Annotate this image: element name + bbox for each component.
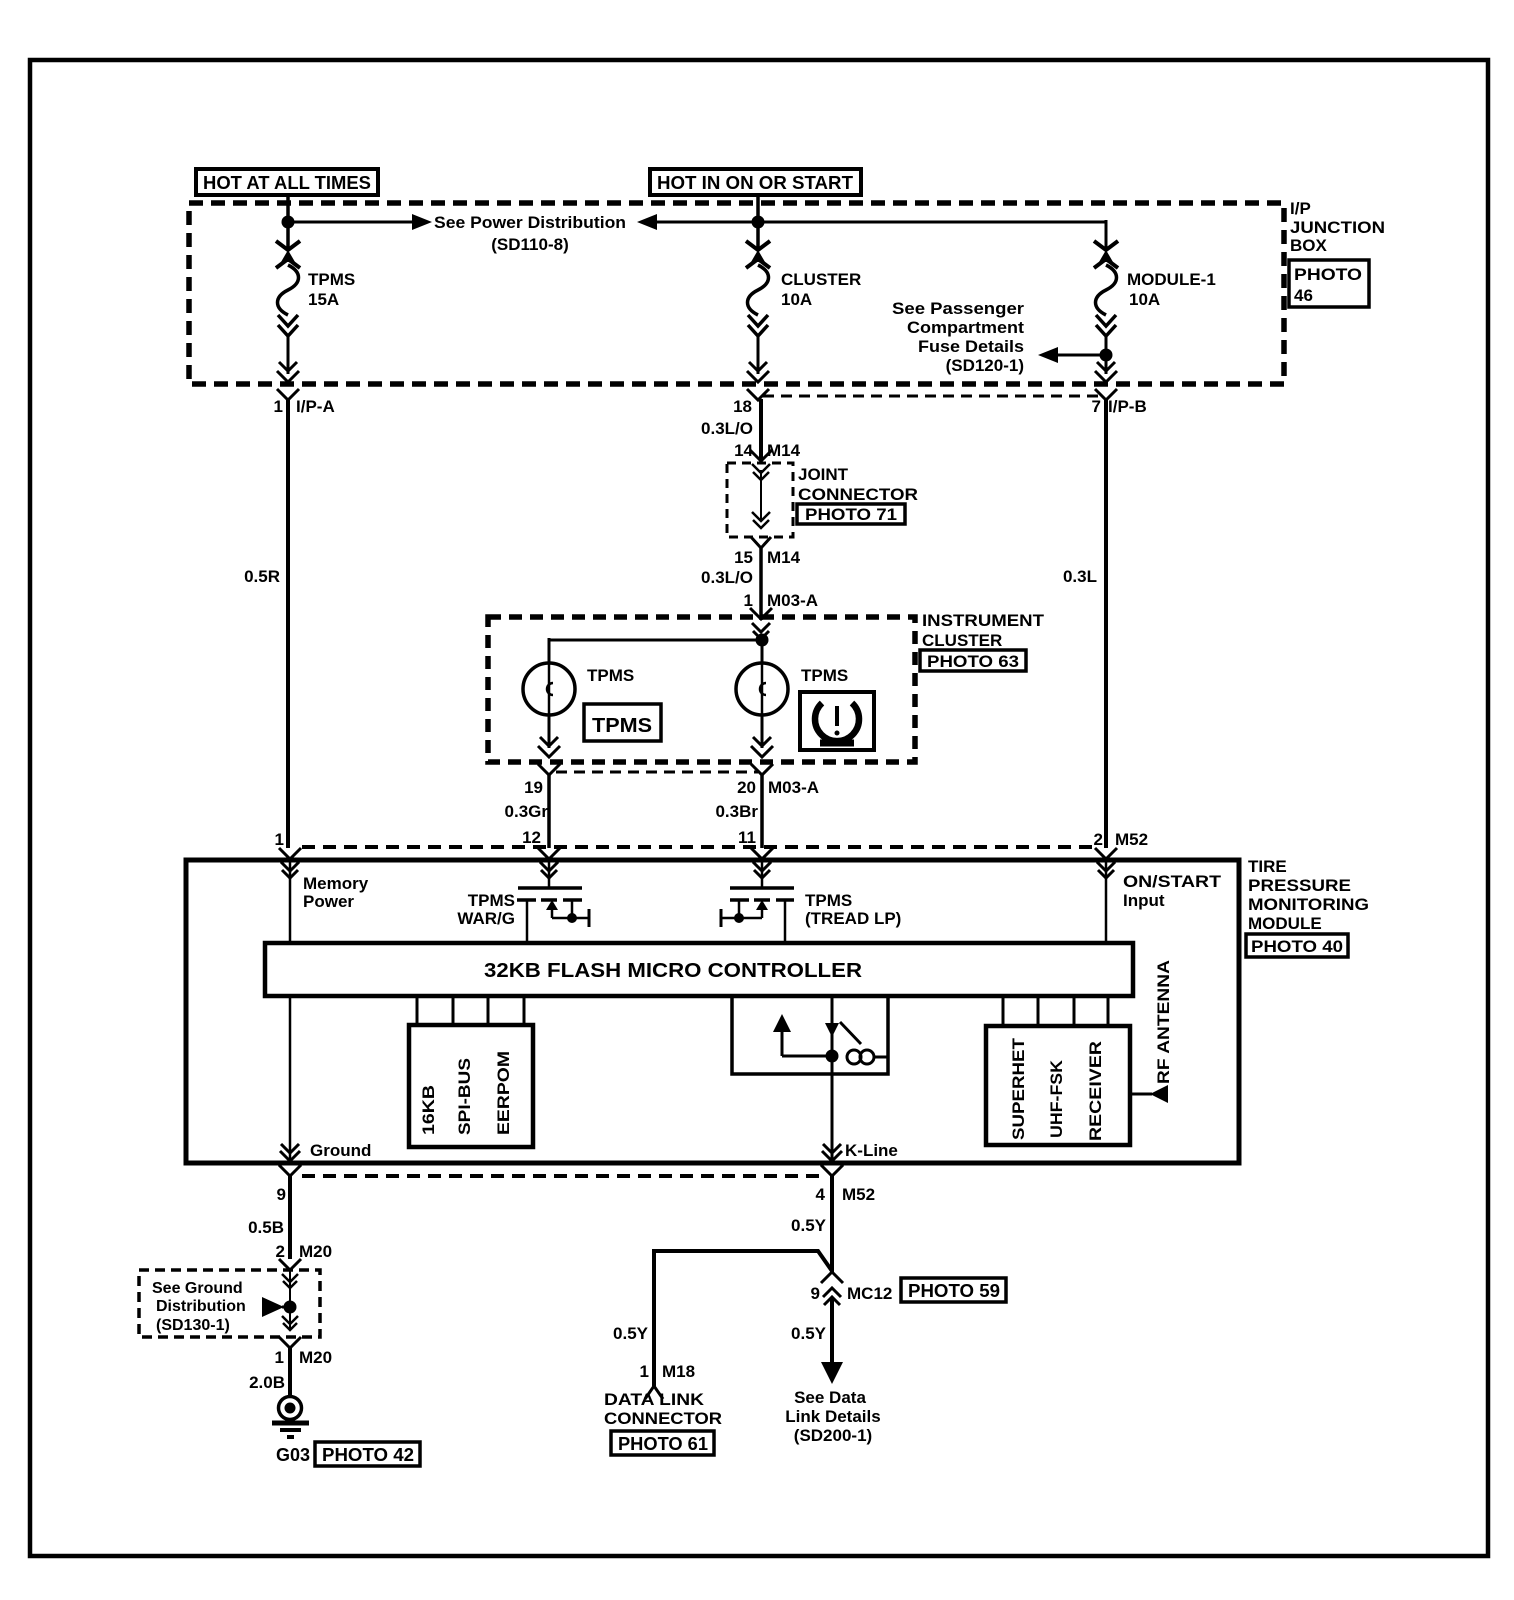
svg-text:1: 1 bbox=[275, 830, 284, 849]
svg-text:See Data: See Data bbox=[794, 1388, 866, 1407]
label 0.5Y lower left bbox=[613, 1324, 649, 1343]
svg-text:Link Details: Link Details bbox=[785, 1407, 880, 1426]
svg-text:15A: 15A bbox=[308, 290, 339, 309]
label pin 2 M20 bbox=[276, 1242, 333, 1261]
fuse TPMS 15A bbox=[276, 241, 300, 374]
svg-text:10A: 10A bbox=[1129, 290, 1160, 309]
svg-text:M03-A: M03-A bbox=[768, 778, 819, 797]
wire 0.5Y to data link details bbox=[821, 1297, 843, 1384]
svg-text:WAR/G: WAR/G bbox=[457, 909, 515, 928]
svg-text:20: 20 bbox=[737, 778, 756, 797]
svg-text:I/P: I/P bbox=[1290, 199, 1311, 218]
label pin 18 bbox=[733, 397, 752, 416]
svg-text:0.5Y: 0.5Y bbox=[791, 1216, 827, 1235]
wire memory power into module bbox=[281, 860, 299, 943]
wire pin 12 into module bbox=[540, 860, 558, 888]
label pin 7 I/P-B bbox=[1092, 397, 1147, 416]
svg-text:See Ground: See Ground bbox=[152, 1280, 243, 1297]
label pin 9 bbox=[277, 1185, 286, 1204]
node K-line junction dot bbox=[826, 1050, 839, 1063]
svg-text:0.5B: 0.5B bbox=[248, 1218, 284, 1237]
svg-text:See Power Distribution: See Power Distribution bbox=[434, 213, 626, 232]
svg-text:I/P-A: I/P-A bbox=[296, 397, 335, 416]
node ground joint dot bbox=[284, 1301, 297, 1314]
receiver box SUPERHET UHF-FSK RECEIVER bbox=[986, 1026, 1130, 1145]
label Memory Power bbox=[303, 874, 369, 911]
connector arrow pin 1 I/P-A bbox=[277, 362, 299, 400]
connector chevron pin 12 module bbox=[538, 848, 560, 859]
wire arrow See Passenger Fuse Details (left) bbox=[1038, 347, 1106, 363]
svg-text:CLUSTER: CLUSTER bbox=[922, 631, 1002, 650]
svg-text:CONNECTOR: CONNECTOR bbox=[798, 485, 918, 504]
label K-Line bbox=[845, 1141, 898, 1160]
svg-text:HOT IN ON OR START: HOT IN ON OR START bbox=[657, 173, 853, 193]
wire on/start 0.3L (right main) bbox=[1104, 399, 1108, 848]
svg-text:CONNECTOR: CONNECTOR bbox=[604, 1409, 722, 1428]
label pin 1 M20 bbox=[275, 1348, 333, 1367]
svg-text:Distribution: Distribution bbox=[156, 1298, 246, 1315]
svg-text:TPMS: TPMS bbox=[468, 891, 515, 910]
connector pin 14 chevron bbox=[750, 450, 772, 480]
fuse CLUSTER 10A bbox=[746, 241, 770, 374]
svg-text:See Passenger: See Passenger bbox=[892, 299, 1024, 318]
label See Ground Distribution (SD130-1) bbox=[152, 1280, 246, 1334]
svg-text:TPMS: TPMS bbox=[592, 715, 652, 737]
label MODULE-1 10A bbox=[1127, 270, 1216, 309]
label 0.5Y upper bbox=[791, 1216, 827, 1235]
label See Data Link Details (SD200-1) bbox=[785, 1388, 880, 1445]
svg-text:18: 18 bbox=[733, 397, 752, 416]
svg-text:SUPERHET: SUPERHET bbox=[1009, 1037, 1028, 1140]
wire 0.5Y K-line drop bbox=[830, 1176, 834, 1272]
svg-text:TIRE: TIRE bbox=[1248, 857, 1287, 876]
wire arrow See Power Distribution (right) bbox=[288, 214, 432, 230]
svg-text:1: 1 bbox=[744, 591, 753, 610]
arrow See Ground Distribution bbox=[262, 1297, 292, 1317]
svg-text:MODULE-1: MODULE-1 bbox=[1127, 270, 1216, 289]
svg-text:PHOTO 40: PHOTO 40 bbox=[1251, 937, 1343, 956]
svg-text:12: 12 bbox=[522, 828, 541, 847]
label 0.5Y lower right bbox=[791, 1324, 827, 1343]
svg-text:19: 19 bbox=[524, 778, 543, 797]
label PHOTO 46 bbox=[1289, 260, 1369, 307]
svg-text:1: 1 bbox=[640, 1362, 649, 1381]
label pin 1 I/P-A bbox=[274, 397, 335, 416]
svg-text:M20: M20 bbox=[299, 1242, 332, 1261]
label HOT AT ALL TIMES bbox=[196, 169, 378, 195]
label TPMS 15A bbox=[308, 270, 355, 309]
svg-text:0.5Y: 0.5Y bbox=[791, 1324, 827, 1343]
connector chevron pin 2 M20 bbox=[279, 1259, 301, 1270]
svg-text:Power: Power bbox=[303, 892, 354, 911]
transistor TPMS WAR/G driver bbox=[517, 888, 589, 943]
wire cluster 0.3L/O upper bbox=[759, 399, 763, 460]
lamp TPMS (right bulb) bbox=[736, 663, 788, 715]
svg-text:RF ANTENNA: RF ANTENNA bbox=[1154, 960, 1173, 1084]
connector chevron pin 1 M20 bbox=[279, 1337, 301, 1348]
wire right bulb to pin 20 bbox=[751, 715, 773, 775]
svg-text:10A: 10A bbox=[781, 290, 812, 309]
svg-text:JOINT: JOINT bbox=[798, 465, 849, 484]
svg-text:(SD200-1): (SD200-1) bbox=[794, 1426, 872, 1445]
svg-text:16KB: 16KB bbox=[419, 1085, 438, 1135]
svg-text:PHOTO 42: PHOTO 42 bbox=[322, 1445, 414, 1465]
label TIRE PRESSURE MONITORING MODULE bbox=[1248, 857, 1369, 933]
svg-text:0.3L/O: 0.3L/O bbox=[701, 568, 753, 587]
svg-text:EERPOM: EERPOM bbox=[494, 1051, 513, 1135]
wire pin 11 into module bbox=[753, 860, 771, 888]
svg-text:ON/START: ON/START bbox=[1123, 872, 1222, 891]
wire connector link dashed 9-4 bbox=[302, 1174, 826, 1178]
wire on/start into module bbox=[1097, 860, 1115, 943]
svg-text:15: 15 bbox=[734, 548, 753, 567]
connector MC12 chevrons bbox=[821, 1272, 843, 1305]
label PHOTO 63 bbox=[920, 650, 1026, 671]
label 2.0B bbox=[249, 1373, 285, 1392]
wire memory power 0.5R (left main) bbox=[286, 399, 290, 848]
label pin 20 M03-A 0.3Br 11 bbox=[715, 778, 819, 847]
wire connector link dashed M52 row bbox=[302, 845, 1098, 849]
node junction dot module-1 bbox=[1100, 349, 1113, 362]
connector arrow pin 18 bbox=[747, 362, 769, 400]
wire cluster lamp bus bbox=[549, 638, 762, 664]
joint connector (dashed box) bbox=[727, 463, 793, 537]
wire branch to data link connector bbox=[654, 1251, 832, 1386]
svg-text:PHOTO: PHOTO bbox=[1294, 265, 1362, 284]
svg-text:G03: G03 bbox=[276, 1445, 310, 1465]
svg-text:PRESSURE: PRESSURE bbox=[1248, 876, 1351, 895]
label PHOTO 59 bbox=[901, 1278, 1006, 1302]
svg-text:TPMS: TPMS bbox=[801, 666, 848, 685]
label pin 15 M14 bbox=[734, 548, 801, 567]
svg-text:(SD130-1): (SD130-1) bbox=[156, 1317, 230, 1334]
svg-text:JUNCTION: JUNCTION bbox=[1290, 218, 1385, 237]
label pin 1 M18 bbox=[640, 1362, 696, 1381]
label HOT IN ON OR START bbox=[650, 169, 861, 195]
connector chevron pin 1 module bbox=[279, 848, 301, 859]
connector chevron pin 1 M18 bbox=[645, 1386, 663, 1399]
svg-text:9: 9 bbox=[811, 1284, 820, 1303]
wire K-line vertical bbox=[825, 996, 839, 1161]
wire cluster 0.3L/O lower bbox=[759, 548, 763, 620]
label pin 2 M52 bbox=[1094, 830, 1149, 849]
wire 0.3Br to module bbox=[760, 775, 764, 848]
connector pin 15 chevron bbox=[751, 537, 771, 548]
svg-text:46: 46 bbox=[1294, 286, 1313, 305]
label pin 1 M03-A bbox=[744, 591, 818, 610]
svg-text:PHOTO 63: PHOTO 63 bbox=[927, 652, 1019, 671]
wire K-line exit arrow bbox=[822, 1144, 842, 1161]
connector chevron pin 11 module bbox=[751, 848, 773, 859]
label TPMS WAR/G bbox=[457, 891, 515, 928]
connector arrow into instrument cluster bbox=[750, 608, 772, 639]
svg-text:TPMS: TPMS bbox=[308, 270, 355, 289]
label PHOTO 71 bbox=[797, 504, 905, 524]
wire stubs to receiver box bbox=[1003, 996, 1108, 1026]
svg-text:32KB FLASH MICRO CONTROLLER: 32KB FLASH MICRO CONTROLLER bbox=[484, 960, 863, 982]
wire ground exit bbox=[280, 996, 300, 1161]
wire cluster feed from HOT IN ON OR START bbox=[756, 195, 760, 248]
svg-text:RECEIVER: RECEIVER bbox=[1086, 1041, 1105, 1141]
svg-text:INSTRUMENT: INSTRUMENT bbox=[922, 611, 1045, 630]
svg-text:2.0B: 2.0B bbox=[249, 1373, 285, 1392]
wire connector link dashed 19-20 bbox=[556, 771, 758, 774]
wire left bulb to pin 19 bbox=[538, 715, 560, 775]
svg-text:9: 9 bbox=[277, 1185, 286, 1204]
label INSTRUMENT CLUSTER bbox=[922, 611, 1045, 650]
node junction dot TPMS feed bbox=[282, 216, 295, 229]
svg-text:PHOTO 61: PHOTO 61 bbox=[618, 1434, 708, 1454]
svg-text:7: 7 bbox=[1092, 397, 1101, 416]
label TPMS left lamp bbox=[587, 666, 634, 685]
wire MODULE-1 drop bbox=[1105, 220, 1108, 248]
lamp TPMS (left bulb) bbox=[523, 663, 575, 715]
svg-text:(TREAD LP): (TREAD LP) bbox=[805, 909, 901, 928]
svg-text:PHOTO 59: PHOTO 59 bbox=[908, 1281, 1000, 1301]
svg-text:0.3Br: 0.3Br bbox=[715, 802, 758, 821]
ground G03 symbol bbox=[272, 1397, 309, 1438]
svg-text:1: 1 bbox=[274, 397, 283, 416]
label pin 9 MC12 bbox=[811, 1284, 893, 1303]
svg-text:M20: M20 bbox=[299, 1348, 332, 1367]
wire inside joint connector bbox=[752, 470, 770, 528]
svg-text:HOT AT ALL TIMES: HOT AT ALL TIMES bbox=[203, 173, 371, 193]
label TPMS gauge box bbox=[584, 704, 661, 741]
label Ground bbox=[310, 1141, 371, 1160]
icon TPMS warning lamp bbox=[800, 692, 874, 750]
svg-text:1: 1 bbox=[275, 1348, 284, 1367]
wire stubs to EEPROM box bbox=[417, 996, 524, 1025]
connector arrow pin 7 I/P-B bbox=[1095, 362, 1117, 400]
label G03 bbox=[276, 1445, 310, 1465]
transistor TPMS TREAD LP driver bbox=[721, 888, 794, 943]
svg-text:I/P-B: I/P-B bbox=[1108, 397, 1147, 416]
svg-text:CLUSTER: CLUSTER bbox=[781, 270, 861, 289]
label PHOTO 61 bbox=[611, 1431, 714, 1455]
svg-text:UHF-FSK: UHF-FSK bbox=[1047, 1059, 1066, 1138]
svg-text:M52: M52 bbox=[1115, 830, 1148, 849]
wire connector link dashed 18-7 bbox=[763, 395, 1104, 398]
label JOINT CONNECTOR bbox=[798, 465, 918, 504]
node junction dot cluster feed bbox=[752, 216, 765, 229]
svg-text:MODULE: MODULE bbox=[1248, 914, 1322, 933]
svg-text:Fuse Details: Fuse Details bbox=[918, 337, 1024, 356]
joint connector ground (dashed box) bbox=[139, 1270, 320, 1337]
label 0.5B bbox=[248, 1218, 284, 1237]
wire 0.5B ground drop bbox=[288, 1176, 292, 1259]
svg-text:Ground: Ground bbox=[310, 1141, 371, 1160]
label PHOTO 40 bbox=[1246, 934, 1348, 957]
svg-text:M03-A: M03-A bbox=[767, 591, 818, 610]
svg-text:4: 4 bbox=[816, 1185, 826, 1204]
wire inside ground joint connector bbox=[282, 1270, 298, 1330]
svg-text:0.5R: 0.5R bbox=[244, 567, 280, 586]
svg-text:K-Line: K-Line bbox=[845, 1141, 898, 1160]
wire 0.3Gr to module bbox=[547, 775, 551, 848]
fuse MODULE-1 10A bbox=[1094, 241, 1118, 374]
svg-text:TPMS: TPMS bbox=[805, 891, 852, 910]
label TPMS right lamp bbox=[801, 666, 848, 685]
svg-text:0.3L/O: 0.3L/O bbox=[701, 419, 753, 438]
instrument cluster (dashed box) bbox=[488, 617, 915, 762]
svg-text:Compartment: Compartment bbox=[907, 318, 1024, 337]
label CLUSTER 10A bbox=[781, 270, 861, 309]
svg-text:PHOTO 71: PHOTO 71 bbox=[805, 505, 897, 524]
wire 2.0B to ground bbox=[288, 1348, 292, 1397]
svg-text:TPMS: TPMS bbox=[587, 666, 634, 685]
K-line driver box bbox=[732, 996, 888, 1074]
label See Power Distribution (SD110-8) bbox=[434, 213, 626, 254]
RF antenna bbox=[1130, 960, 1173, 1103]
micro controller box bbox=[265, 943, 1133, 996]
svg-text:DATA LINK: DATA LINK bbox=[604, 1390, 705, 1409]
label DATA LINK CONNECTOR bbox=[604, 1390, 722, 1428]
svg-text:0.3Gr: 0.3Gr bbox=[505, 802, 549, 821]
svg-text:Memory: Memory bbox=[303, 874, 369, 893]
label 0.3L/O lower bbox=[701, 568, 753, 587]
I/P junction box (dashed) bbox=[189, 203, 1284, 384]
svg-text:M52: M52 bbox=[842, 1185, 875, 1204]
svg-text:2: 2 bbox=[1094, 830, 1103, 849]
svg-text:(SD120-1): (SD120-1) bbox=[946, 356, 1024, 375]
node junction dot cluster lamp bus bbox=[756, 634, 769, 647]
label ON/START Input bbox=[1123, 872, 1222, 910]
label TPMS (TREAD LP) bbox=[805, 891, 901, 928]
connector chevron pin 2 module bbox=[1095, 848, 1117, 859]
svg-text:(SD110-8): (SD110-8) bbox=[491, 235, 568, 254]
label pin 4 M52 bbox=[816, 1185, 876, 1204]
connector chevron pin 9 module bottom bbox=[279, 1165, 301, 1176]
label 0.3L bbox=[1063, 567, 1097, 586]
wire bus to See Power Distribution (left arrow) and MODULE-1 branch bbox=[637, 214, 1106, 230]
label PHOTO 42 bbox=[315, 1442, 420, 1466]
K-line driver internals bbox=[773, 1014, 888, 1064]
wire TPMS feed from HOT AT ALL TIMES bbox=[286, 195, 290, 248]
svg-text:BOX: BOX bbox=[1290, 236, 1328, 255]
label 0.3L/O upper bbox=[701, 419, 753, 438]
svg-text:Input: Input bbox=[1123, 891, 1165, 910]
svg-text:0.5Y: 0.5Y bbox=[613, 1324, 649, 1343]
svg-text:MC12: MC12 bbox=[847, 1284, 892, 1303]
label See Passenger Compartment Fuse Details (SD120-1) bbox=[892, 299, 1024, 375]
svg-text:0.3L: 0.3L bbox=[1063, 567, 1097, 586]
svg-text:M18: M18 bbox=[662, 1362, 695, 1381]
svg-text:SPI-BUS: SPI-BUS bbox=[455, 1058, 474, 1135]
label I/P JUNCTION BOX bbox=[1290, 199, 1385, 255]
svg-text:M14: M14 bbox=[767, 548, 801, 567]
svg-text:MONITORING: MONITORING bbox=[1248, 895, 1369, 914]
EEPROM box 16KB SPI-BUS EERPOM bbox=[409, 1025, 533, 1147]
label pin 14 M14 bbox=[734, 441, 801, 460]
TPMS module box bbox=[186, 860, 1239, 1163]
label pin 1 (module) bbox=[275, 830, 284, 849]
svg-text:11: 11 bbox=[738, 828, 756, 847]
label pin 19 0.3Gr 12 bbox=[505, 778, 549, 847]
label 0.5R bbox=[244, 567, 280, 586]
connector chevron pin 4 module bottom bbox=[821, 1165, 843, 1176]
